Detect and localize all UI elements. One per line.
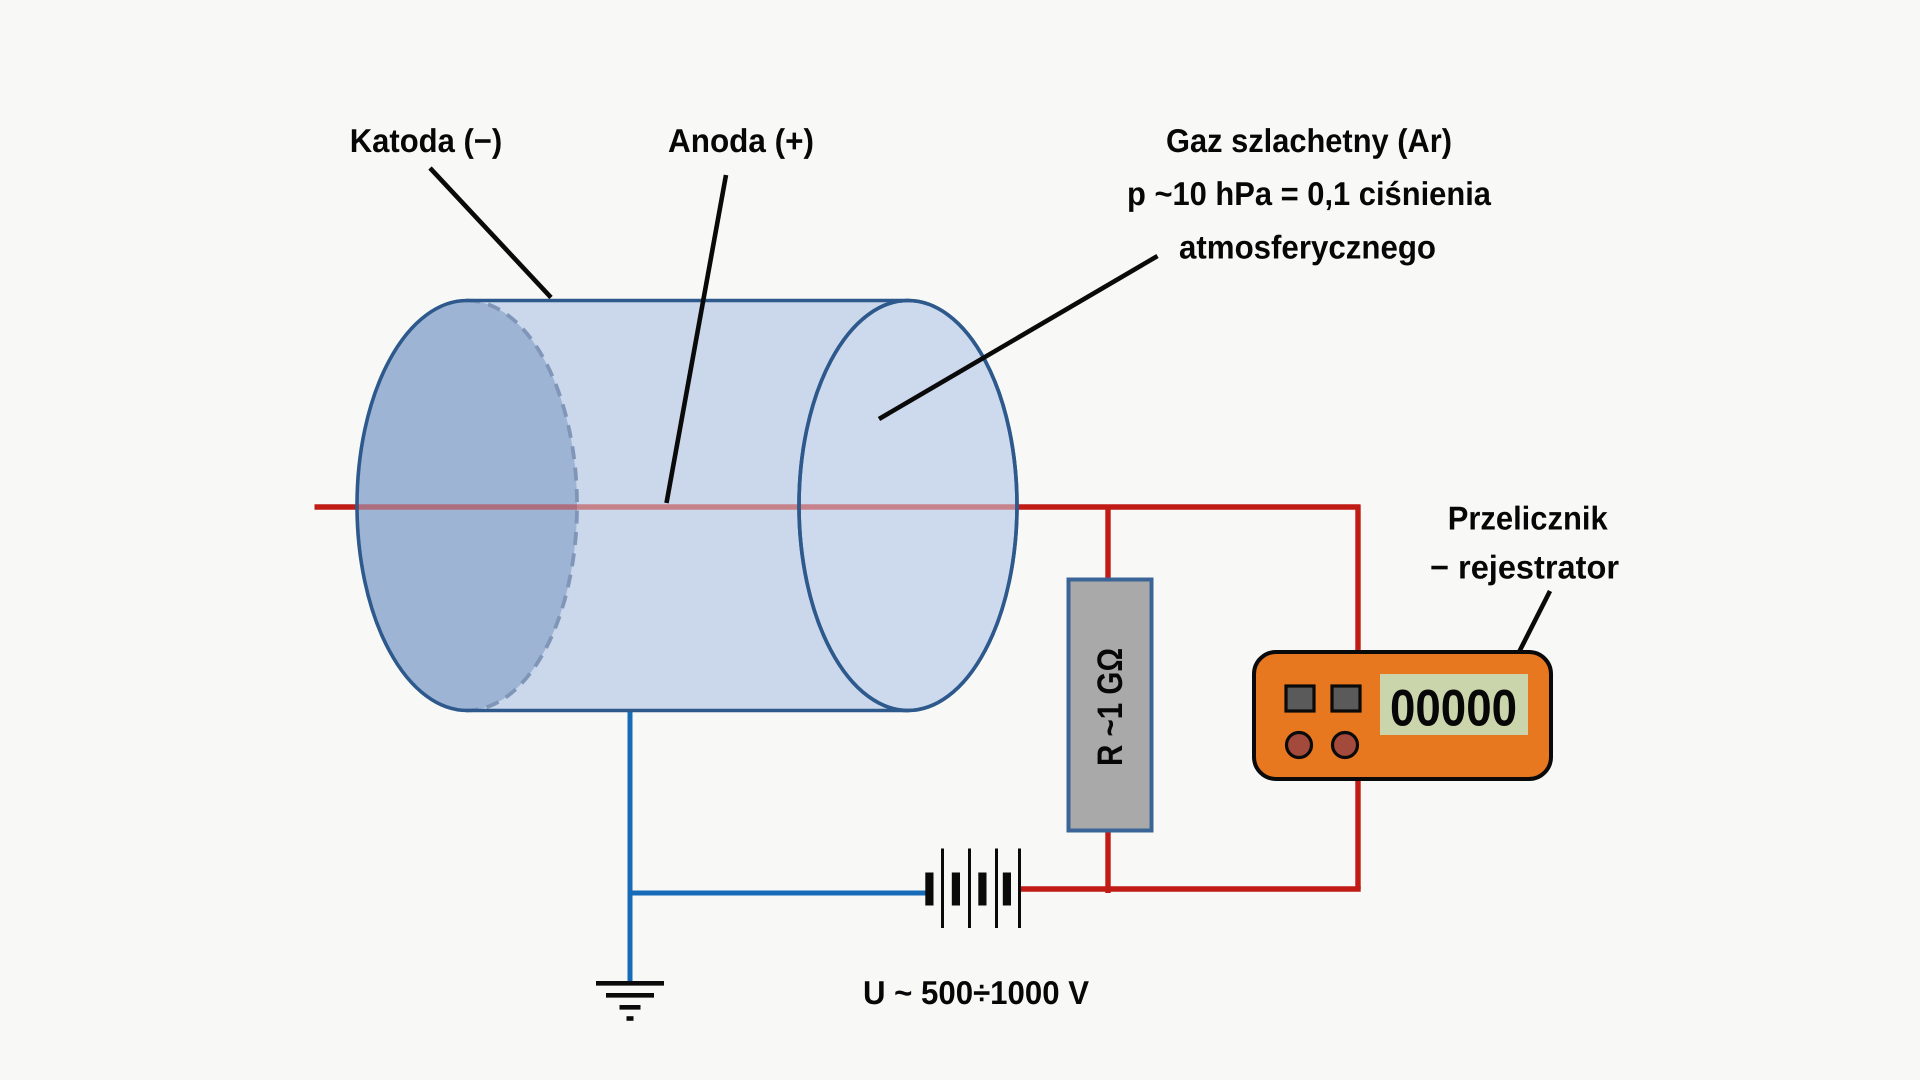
svg-text:Gaz szlachetny (Ar): Gaz szlachetny (Ar) [1166, 122, 1452, 159]
counter / rejestrator box [1254, 652, 1551, 779]
svg-text:Anoda (+): Anoda (+) [668, 122, 814, 159]
button circle 2 [1333, 733, 1358, 758]
pointer line: Katoda [430, 168, 551, 298]
button circle 1 [1287, 733, 1312, 758]
svg-text:R ~1 GΩ: R ~1 GΩ [1090, 648, 1130, 766]
svg-text:U ~ 500÷1000 V: U ~ 500÷1000 V [863, 974, 1089, 1011]
svg-text:00000: 00000 [1390, 679, 1517, 737]
svg-text:atmosferycznego: atmosferycznego [1179, 229, 1436, 266]
wire: red anode wire (horizontal, axis) [315, 504, 1361, 510]
GM tube left end cap (cathode disc) [357, 301, 577, 711]
pointer line: Gaz [879, 256, 1158, 419]
anode wire seen through tube (muted) [358, 504, 1016, 510]
svg-text:p ~10 hPa = 0,1 ciśnienia: p ~10 hPa = 0,1 ciśnienia [1127, 175, 1492, 212]
dashed back rim of left cap [467, 301, 577, 711]
wire: red vertical right branch to counter [1355, 505, 1360, 889]
wire: red bottom wire from battery to right branch [1021, 886, 1361, 891]
wire: blue horizontal wire to battery [628, 891, 927, 896]
wire: red vertical to resistor R [1105, 507, 1110, 893]
GM tube body [467, 301, 908, 711]
pointer line: Anoda [667, 175, 727, 503]
right cap rim redrawn over wire [799, 301, 1017, 711]
svg-text:− rejestrator: − rejestrator [1430, 549, 1619, 586]
GM tube right end cap [799, 301, 1017, 711]
resistor R [1069, 580, 1152, 831]
tube top and bottom edges [466, 299, 909, 303]
button square 1 [1286, 686, 1314, 711]
ground [596, 983, 664, 1018]
battery B1 [925, 849, 1021, 929]
counter display [1380, 674, 1528, 735]
svg-text:Katoda (−): Katoda (−) [350, 122, 503, 159]
pointer line: Przelicznik [1515, 591, 1551, 661]
wire: blue cathode wire vertical from tube [628, 708, 633, 985]
svg-text:Przelicznik: Przelicznik [1448, 500, 1609, 537]
button square 2 [1332, 686, 1360, 711]
